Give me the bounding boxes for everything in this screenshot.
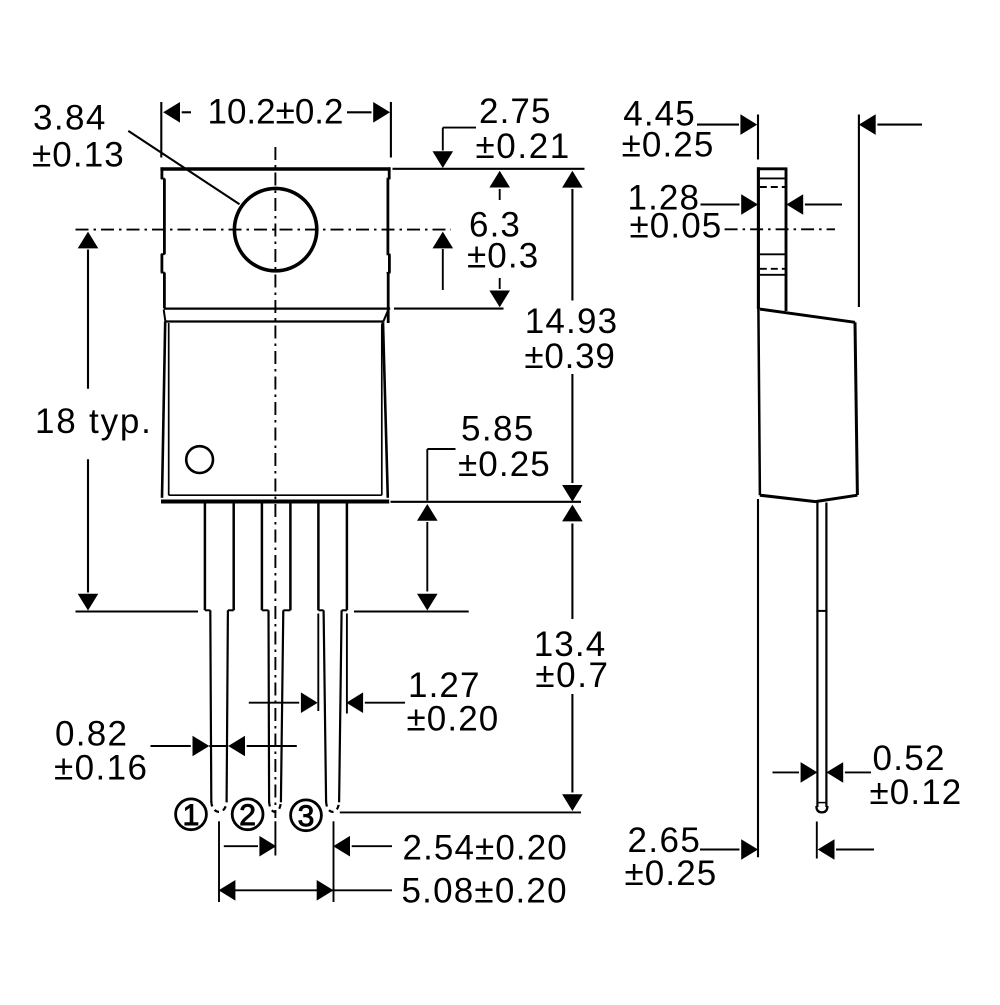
svg-text:±0.16: ±0.16 bbox=[54, 749, 148, 788]
svg-text:±0.3: ±0.3 bbox=[467, 237, 539, 276]
svg-text:±0.13: ±0.13 bbox=[32, 136, 125, 175]
svg-text:±0.05: ±0.05 bbox=[630, 207, 723, 246]
svg-text:±0.39: ±0.39 bbox=[524, 337, 615, 376]
svg-text:1: 1 bbox=[183, 799, 200, 832]
svg-text:14.93: 14.93 bbox=[525, 302, 619, 341]
svg-text:2.75: 2.75 bbox=[479, 92, 552, 131]
svg-text:±0.20: ±0.20 bbox=[407, 700, 500, 739]
svg-text:10.2±0.2: 10.2±0.2 bbox=[208, 92, 344, 131]
svg-text:5.08±0.20: 5.08±0.20 bbox=[402, 872, 568, 911]
svg-text:±0.25: ±0.25 bbox=[625, 854, 718, 893]
svg-text:5.85: 5.85 bbox=[461, 410, 535, 449]
svg-text:±0.12: ±0.12 bbox=[870, 773, 963, 812]
svg-text:±0.25: ±0.25 bbox=[458, 445, 551, 484]
svg-text:18 typ.: 18 typ. bbox=[35, 402, 153, 441]
svg-text:±0.21: ±0.21 bbox=[476, 127, 571, 166]
svg-text:2.54±0.20: 2.54±0.20 bbox=[403, 829, 568, 868]
svg-text:3.84: 3.84 bbox=[33, 99, 107, 138]
svg-text:3: 3 bbox=[298, 800, 315, 833]
svg-text:±0.25: ±0.25 bbox=[622, 126, 715, 165]
svg-text:±0.7: ±0.7 bbox=[535, 656, 609, 695]
svg-text:2: 2 bbox=[239, 799, 256, 832]
